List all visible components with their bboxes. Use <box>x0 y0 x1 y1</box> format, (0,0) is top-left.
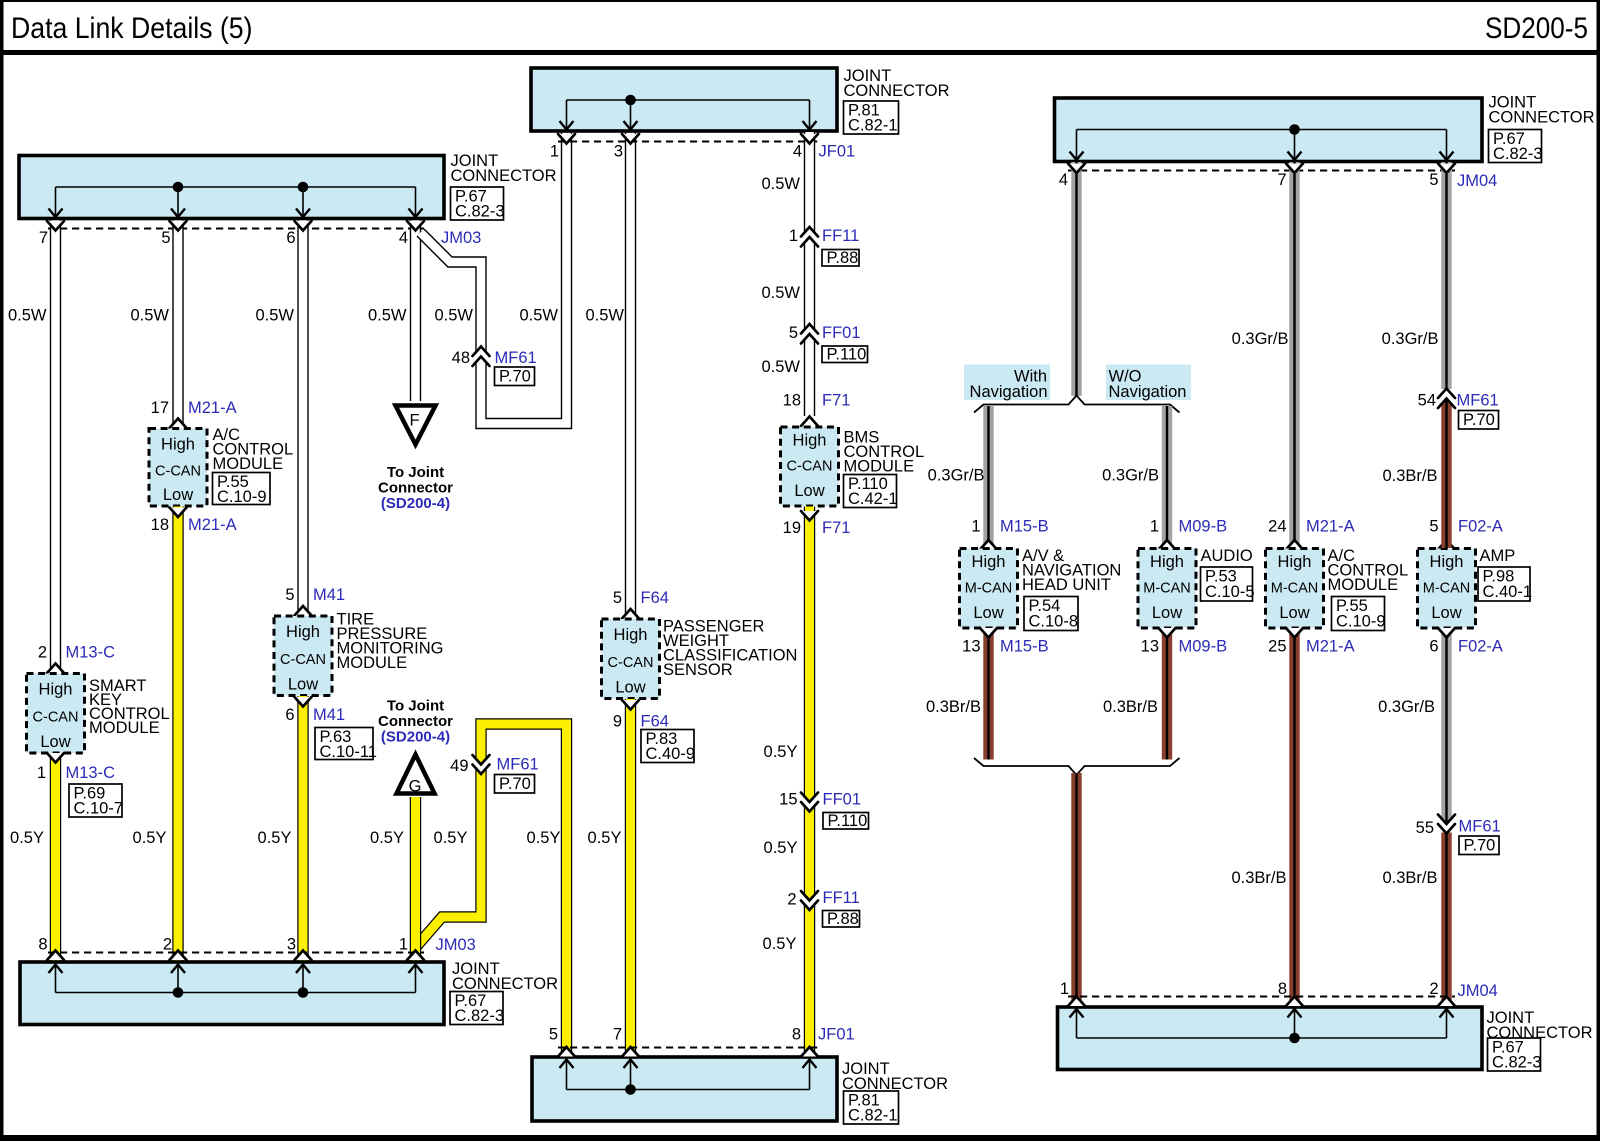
svg-text:AMP: AMP <box>1480 547 1516 565</box>
JM03 top pin chevrons and pin numbers 7 5 6 4 <box>47 221 64 231</box>
svg-text:6: 6 <box>1429 638 1438 656</box>
svg-text:7: 7 <box>39 229 48 247</box>
svg-text:High: High <box>39 681 73 699</box>
svg-text:M15-B: M15-B <box>1000 518 1049 536</box>
svg-text:2: 2 <box>163 936 172 954</box>
svg-text:G: G <box>409 778 422 796</box>
wire JM04 pin5 to MF61-54, 0.3Gr/B <box>1441 162 1451 389</box>
svg-text:54: 54 <box>1418 392 1436 410</box>
svg-text:M41: M41 <box>313 706 345 724</box>
svg-text:1: 1 <box>37 764 46 782</box>
svg-text:P.110: P.110 <box>828 812 868 830</box>
svg-text:4: 4 <box>1059 171 1068 189</box>
svg-text:18: 18 <box>151 516 169 534</box>
svg-text:13: 13 <box>962 638 980 656</box>
dashed connector boundary JF01 top <box>558 141 818 143</box>
svg-text:P.88: P.88 <box>827 249 859 267</box>
svg-text:8: 8 <box>1278 980 1287 998</box>
wire F02-A pin6 to MF61-55, 0.3Gr/B <box>1441 629 1451 825</box>
svg-text:0.5Y: 0.5Y <box>258 829 292 847</box>
joint connector JM04 (bottom right), P.67 C.82-3 <box>1058 1007 1483 1070</box>
svg-text:C-CAN: C-CAN <box>33 709 79 725</box>
JM04 bottom pin chevrons and pin numbers 1 8 2 <box>1068 997 1085 1007</box>
dashed connector boundary JF01 bottom <box>558 1047 818 1049</box>
svg-text:Connector: Connector <box>378 480 453 497</box>
joint connector JM03 (bottom left), P.67 C.82-3 <box>20 962 444 1025</box>
svg-text:MF61: MF61 <box>495 349 537 367</box>
svg-text:7: 7 <box>1277 171 1286 189</box>
svg-text:4: 4 <box>793 143 802 161</box>
svg-text:C-CAN: C-CAN <box>787 459 833 475</box>
svg-text:High: High <box>1150 553 1184 571</box>
wire branch to M09-B audio, 0.3Gr/B <box>1162 406 1172 548</box>
svg-text:4: 4 <box>399 229 408 247</box>
wire M21-A pin18 to JM03 pin2, 0.5Y <box>172 507 183 961</box>
svg-text:F71: F71 <box>822 519 850 537</box>
svg-text:49: 49 <box>450 757 468 775</box>
svg-text:SENSOR: SENSOR <box>663 661 733 679</box>
svg-text:M15-B: M15-B <box>1000 638 1049 656</box>
svg-text:0.5Y: 0.5Y <box>370 829 404 847</box>
svg-text:MF61: MF61 <box>1457 392 1499 410</box>
wire M09-B pin13 to merge, 0.3Br/B <box>1162 629 1172 760</box>
svg-text:P.70: P.70 <box>1463 411 1495 429</box>
JM03 bottom pin chevrons and pin numbers 8 2 3 1 <box>47 951 64 961</box>
svg-text:2: 2 <box>787 891 796 909</box>
svg-text:M21-A: M21-A <box>1306 518 1355 536</box>
svg-text:0.5W: 0.5W <box>255 307 294 325</box>
svg-text:1: 1 <box>1150 518 1159 536</box>
svg-text:M41: M41 <box>313 586 345 604</box>
wire M41 pin6 to JM03 pin3, 0.5Y <box>297 696 308 961</box>
svg-text:C.40-9: C.40-9 <box>646 745 696 763</box>
svg-text:JF01: JF01 <box>818 1026 855 1044</box>
inline connector MF61 pin 48, P.70 <box>472 347 490 367</box>
svg-text:7: 7 <box>613 1026 622 1044</box>
svg-text:C.82-3: C.82-3 <box>455 203 505 221</box>
svg-text:M-CAN: M-CAN <box>1271 580 1319 596</box>
svg-text:C.10-11: C.10-11 <box>320 743 377 761</box>
JF01 top pin chevrons and pin numbers 1 3 4 <box>558 134 575 144</box>
svg-text:C.10-5: C.10-5 <box>1205 583 1255 601</box>
wire JM04 pin4 to navigation branch, 0.3Gr/B <box>1071 162 1081 396</box>
JM04 top pin chevrons and pin numbers 4 7 5 <box>1068 164 1085 174</box>
joint connector JF01 (top center), P.81 C.82-1 <box>531 68 837 131</box>
wire JF01 pin3 to passenger weight sensor, 0.5W <box>625 132 636 618</box>
svg-text:1: 1 <box>550 143 559 161</box>
svg-text:M09-B: M09-B <box>1179 638 1228 656</box>
svg-text:MODULE: MODULE <box>844 458 915 476</box>
svg-text:Low: Low <box>794 482 824 500</box>
svg-text:0.3Br/B: 0.3Br/B <box>926 698 981 716</box>
svg-text:C.82-1: C.82-1 <box>848 1107 898 1125</box>
wire M15-B pin13 to merge, 0.3Br/B <box>983 629 993 760</box>
joint connector JM03 (top left), P.67 C.82-3 <box>19 156 444 219</box>
svg-text:48: 48 <box>452 349 470 367</box>
svg-text:C.10-8: C.10-8 <box>1029 613 1079 631</box>
svg-text:25: 25 <box>1268 638 1286 656</box>
svg-text:P.88: P.88 <box>827 910 859 928</box>
wire M21-A pin25 to JM04 pin8, 0.3Br/B <box>1289 629 1299 1007</box>
wire F64 pin9 to JF01 pin7, 0.5Y <box>625 699 636 1056</box>
svg-text:M21-A: M21-A <box>188 399 237 417</box>
svg-text:1: 1 <box>1060 980 1069 998</box>
svg-text:F64: F64 <box>641 589 669 607</box>
svg-text:High: High <box>161 436 195 454</box>
svg-text:0.5W: 0.5W <box>434 307 473 325</box>
svg-text:8: 8 <box>38 936 47 954</box>
off-page triangle F to joint connector SD200-4 <box>396 406 436 445</box>
svg-text:C.82-1: C.82-1 <box>848 117 898 135</box>
label W/O Navigation <box>1106 365 1191 401</box>
svg-text:0.5Y: 0.5Y <box>133 829 167 847</box>
svg-text:JM04: JM04 <box>1457 172 1497 190</box>
svg-text:High: High <box>793 432 827 450</box>
svg-text:M-CAN: M-CAN <box>965 580 1013 596</box>
svg-text:18: 18 <box>783 392 801 410</box>
svg-text:0.5Y: 0.5Y <box>764 743 798 761</box>
svg-text:55: 55 <box>1416 819 1434 837</box>
svg-text:C.10-7: C.10-7 <box>74 800 124 818</box>
svg-text:SD200-5: SD200-5 <box>1485 12 1588 45</box>
inline connector FF01 pin 15, P.110 <box>801 793 819 812</box>
svg-text:C-CAN: C-CAN <box>608 655 654 671</box>
svg-text:C.40-1: C.40-1 <box>1483 583 1533 601</box>
dashed connector boundary JM03 top <box>48 228 424 230</box>
svg-text:(SD200-4): (SD200-4) <box>381 729 450 746</box>
dashed connector boundary JM04 bottom <box>1068 996 1455 998</box>
svg-text:M13-C: M13-C <box>66 644 116 662</box>
svg-text:HEAD UNIT: HEAD UNIT <box>1022 576 1111 594</box>
wire JM03 pin6 to tire pressure module, 0.5W <box>297 221 308 616</box>
svg-text:F71: F71 <box>822 392 850 410</box>
svg-text:0.5W: 0.5W <box>761 358 800 376</box>
wire branch to M15-B head unit, 0.3Gr/B <box>983 406 993 548</box>
svg-text:0.3Gr/B: 0.3Gr/B <box>1378 698 1435 716</box>
svg-text:P.70: P.70 <box>499 368 531 386</box>
svg-text:0.5W: 0.5W <box>519 307 558 325</box>
svg-text:M13-C: M13-C <box>66 764 116 782</box>
svg-text:5: 5 <box>1429 518 1438 536</box>
svg-text:0.5Y: 0.5Y <box>10 829 44 847</box>
svg-text:Low: Low <box>1279 604 1309 622</box>
svg-text:6: 6 <box>285 706 294 724</box>
svg-text:JM03: JM03 <box>436 936 476 954</box>
wire M13-C pin1 to JM03 pin8, 0.5Y <box>50 754 61 961</box>
svg-text:5: 5 <box>1429 171 1438 189</box>
svg-text:MODULE: MODULE <box>89 719 160 737</box>
svg-text:CONNECTOR: CONNECTOR <box>451 167 557 185</box>
svg-text:8: 8 <box>792 1026 801 1044</box>
svg-text:High: High <box>1278 553 1312 571</box>
wire JM03 pin4 to triangle F, 0.5W <box>410 221 421 402</box>
svg-text:F02-A: F02-A <box>1458 638 1503 656</box>
svg-text:Low: Low <box>288 676 318 694</box>
wire merge to JM04 pin1, 0.3Br/B <box>1071 773 1081 1006</box>
svg-text:3: 3 <box>614 143 623 161</box>
wire G triangle to JM03 pin1, 0.5Y <box>410 797 421 961</box>
svg-text:Low: Low <box>973 604 1003 622</box>
svg-text:MODULE: MODULE <box>1328 576 1399 594</box>
svg-text:M21-A: M21-A <box>1306 638 1355 656</box>
inline connector MF61 pin 54, P.70 <box>1438 389 1456 409</box>
svg-text:M09-B: M09-B <box>1179 518 1228 536</box>
svg-text:6: 6 <box>286 229 295 247</box>
label With Navigation <box>964 365 1050 401</box>
wire MF61-55 to JM04 pin2, 0.3Br/B <box>1441 833 1451 1007</box>
svg-text:Low: Low <box>1431 604 1461 622</box>
svg-text:C.42-1: C.42-1 <box>848 490 898 508</box>
svg-text:MODULE: MODULE <box>337 654 408 672</box>
svg-text:JM03: JM03 <box>441 229 481 247</box>
svg-text:2: 2 <box>1429 980 1438 998</box>
svg-text:15: 15 <box>779 791 797 809</box>
merge brace of navigation wires <box>974 758 1180 775</box>
svg-text:0.3Gr/B: 0.3Gr/B <box>928 467 985 485</box>
wire JM03 pin1 to JF01 pin5 via MF61-49, 0.5Y <box>416 724 567 1056</box>
svg-text:To Joint: To Joint <box>387 698 444 715</box>
svg-text:High: High <box>1430 553 1464 571</box>
svg-text:0.3Br/B: 0.3Br/B <box>1382 869 1437 887</box>
svg-text:To Joint: To Joint <box>387 464 444 481</box>
svg-text:P.70: P.70 <box>1464 837 1496 855</box>
svg-text:5: 5 <box>789 324 798 342</box>
svg-text:F: F <box>409 412 419 430</box>
svg-text:Low: Low <box>1152 604 1182 622</box>
inline connector FF11 pin 1, P.88 <box>801 227 819 247</box>
svg-text:0.3Gr/B: 0.3Gr/B <box>1232 330 1289 348</box>
svg-text:5: 5 <box>613 589 622 607</box>
svg-text:0.5W: 0.5W <box>130 307 169 325</box>
svg-text:Low: Low <box>40 733 70 751</box>
svg-text:5: 5 <box>285 586 294 604</box>
svg-text:Low: Low <box>615 679 645 697</box>
svg-text:M-CAN: M-CAN <box>1423 580 1471 596</box>
svg-text:MF61: MF61 <box>497 756 539 774</box>
svg-text:0.5W: 0.5W <box>761 284 800 302</box>
svg-text:Navigation: Navigation <box>970 383 1048 401</box>
svg-text:0.5Y: 0.5Y <box>764 839 798 857</box>
svg-text:0.3Gr/B: 0.3Gr/B <box>1382 330 1439 348</box>
svg-text:5: 5 <box>549 1026 558 1044</box>
dashed connector boundary JM03 bottom <box>48 952 424 954</box>
svg-text:JF01: JF01 <box>819 143 856 161</box>
wire JM03 pin5 to A/C control module, 0.5W <box>172 221 183 428</box>
svg-text:9: 9 <box>613 713 622 731</box>
svg-text:1: 1 <box>971 518 980 536</box>
svg-text:CONNECTOR: CONNECTOR <box>1489 109 1595 127</box>
JF01 bottom pin chevrons and pin numbers 5 7 8 <box>558 1047 575 1057</box>
svg-text:3: 3 <box>287 936 296 954</box>
svg-text:M-CAN: M-CAN <box>1143 580 1191 596</box>
inline connector MF61 pin 49, P.70 <box>472 755 490 774</box>
svg-text:Navigation: Navigation <box>1109 383 1187 401</box>
wire JM03 pin4 to JF01 pin1 via MF61-48, 0.5W <box>421 132 567 424</box>
svg-text:JM04: JM04 <box>1458 982 1498 1000</box>
svg-text:Connector: Connector <box>378 713 453 730</box>
svg-text:C-CAN: C-CAN <box>280 652 326 668</box>
svg-text:13: 13 <box>1141 638 1159 656</box>
svg-text:19: 19 <box>783 519 801 537</box>
svg-text:C-CAN: C-CAN <box>155 463 201 479</box>
dashed connector boundary JM04 top <box>1068 170 1455 172</box>
svg-text:CONNECTOR: CONNECTOR <box>452 975 558 993</box>
svg-text:MODULE: MODULE <box>213 455 284 473</box>
svg-text:0.5Y: 0.5Y <box>588 829 622 847</box>
svg-text:High: High <box>286 623 320 641</box>
svg-text:FF01: FF01 <box>823 791 862 809</box>
svg-text:M21-A: M21-A <box>188 516 237 534</box>
svg-text:Data Link Details (5): Data Link Details (5) <box>11 12 253 45</box>
wire JM04 pin7 to A/C control module, 0.3Gr/B <box>1289 162 1299 548</box>
svg-text:0.3Br/B: 0.3Br/B <box>1231 869 1286 887</box>
svg-text:F02-A: F02-A <box>1458 518 1503 536</box>
svg-text:0.5W: 0.5W <box>585 307 624 325</box>
svg-text:High: High <box>972 553 1006 571</box>
svg-text:0.5Y: 0.5Y <box>434 829 468 847</box>
wire JF01 pin4 to BMS module, 0.5W <box>804 132 815 416</box>
svg-text:P.110: P.110 <box>827 346 867 364</box>
joint connector JM04 (top right), P.67 C.82-3 <box>1055 98 1483 162</box>
wire JM03 pin7 to smart key module, 0.5W <box>50 221 61 673</box>
svg-text:High: High <box>614 626 648 644</box>
svg-text:2: 2 <box>38 644 47 662</box>
svg-text:MF61: MF61 <box>1459 818 1501 836</box>
svg-text:C.10-9: C.10-9 <box>1336 613 1386 631</box>
joint connector JF01 (bottom center), P.81 C.82-1 <box>532 1057 837 1121</box>
svg-text:FF01: FF01 <box>822 324 861 342</box>
svg-text:AUDIO: AUDIO <box>1201 547 1253 565</box>
svg-text:(SD200-4): (SD200-4) <box>381 495 450 512</box>
svg-text:C.82-3: C.82-3 <box>455 1007 505 1025</box>
svg-text:FF11: FF11 <box>823 889 860 907</box>
svg-text:1: 1 <box>399 936 408 954</box>
svg-text:C.82-3: C.82-3 <box>1492 1054 1542 1072</box>
svg-text:0.5Y: 0.5Y <box>763 935 797 953</box>
svg-text:Low: Low <box>163 486 193 504</box>
inline connector MF61 pin 55, P.70 <box>1438 815 1456 834</box>
svg-text:CONNECTOR: CONNECTOR <box>844 82 950 100</box>
svg-text:0.3Br/B: 0.3Br/B <box>1382 467 1437 485</box>
svg-text:0.5W: 0.5W <box>368 307 407 325</box>
inline connector FF01 pin 5, P.110 <box>801 324 819 344</box>
svg-text:C.10-9: C.10-9 <box>217 488 267 506</box>
branch brace with/without navigation <box>974 396 1180 413</box>
inline connector FF11 pin 2, P.88 <box>801 891 819 910</box>
svg-text:5: 5 <box>161 229 170 247</box>
svg-text:17: 17 <box>151 399 169 417</box>
svg-text:P.70: P.70 <box>499 775 531 793</box>
svg-text:24: 24 <box>1268 518 1286 536</box>
svg-text:FF11: FF11 <box>822 227 859 245</box>
svg-text:C.82-3: C.82-3 <box>1493 145 1543 163</box>
svg-text:1: 1 <box>789 227 798 245</box>
wire F71 pin19 to JF01 pin8, 0.5Y <box>804 507 815 1056</box>
svg-text:0.5Y: 0.5Y <box>527 829 561 847</box>
svg-text:0.3Br/B: 0.3Br/B <box>1103 698 1158 716</box>
svg-text:0.5W: 0.5W <box>8 307 47 325</box>
svg-text:F64: F64 <box>641 713 669 731</box>
svg-text:0.5W: 0.5W <box>761 175 800 193</box>
wire MF61-54 to F02-A pin5, 0.3Br/B <box>1441 398 1451 548</box>
svg-text:0.3Gr/B: 0.3Gr/B <box>1102 467 1159 485</box>
